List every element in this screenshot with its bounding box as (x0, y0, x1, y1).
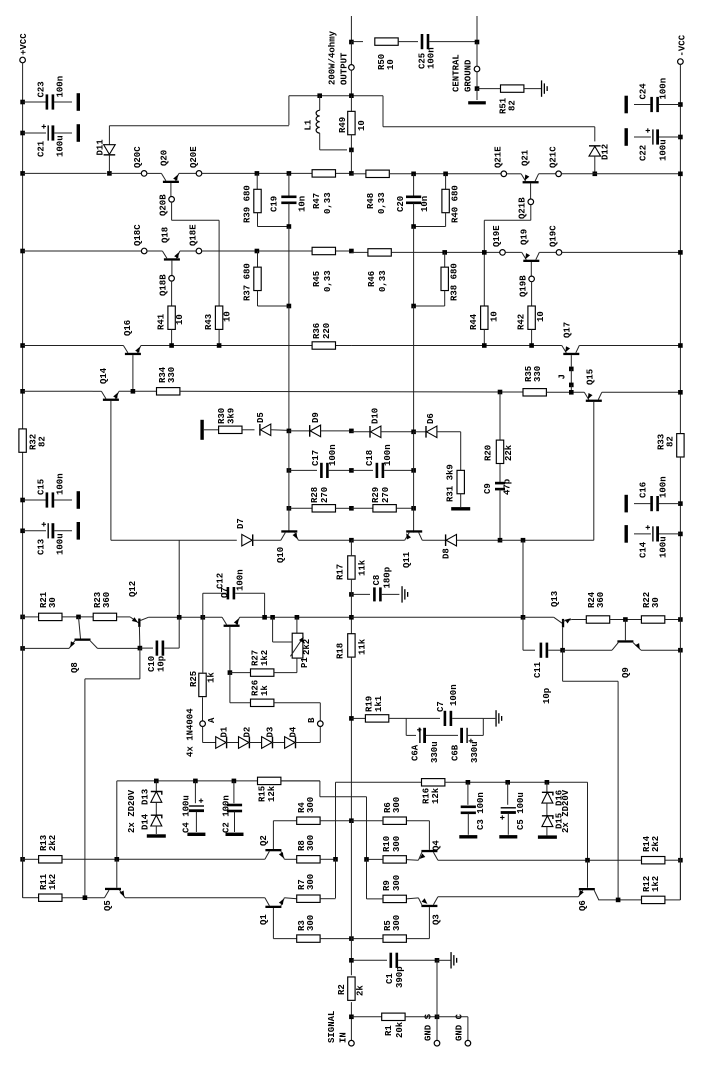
resistor R39 (256, 173, 258, 189)
svg-text:R10: R10 (382, 836, 392, 852)
wire Q21B jog to R44 (530, 205, 532, 221)
diode D10 (351, 431, 370, 433)
resistor R36 (312, 342, 335, 349)
wire step Q12 node down (139, 648, 141, 679)
wire bus R (413, 227, 415, 307)
wire Q19C to -VCC (562, 251, 681, 253)
node C5 (505, 780, 510, 785)
resistor R10 (383, 856, 406, 863)
svg-text:2x ZD20V: 2x ZD20V (561, 789, 571, 833)
svg-text:100u: 100u (659, 536, 669, 558)
svg-text:330: 330 (167, 367, 177, 383)
wire Q15 base lead (593, 402, 595, 540)
svg-text:220: 220 (322, 323, 332, 339)
node R3 bus (349, 936, 354, 941)
svg-text:270: 270 (381, 487, 391, 503)
capacitor C8 (349, 592, 354, 597)
wire bias line right (351, 345, 561, 347)
terminal Q21C (556, 171, 562, 177)
node R1 (349, 1015, 354, 1020)
svg-text:100n: 100n (328, 444, 338, 466)
svg-text:0,33: 0,33 (323, 192, 333, 214)
svg-text:C21: C21 (37, 140, 47, 157)
resistor R34 (157, 388, 180, 395)
svg-text:A: A (207, 717, 217, 723)
capacitor C21 (20, 131, 25, 136)
svg-text:Q20E: Q20E (189, 146, 199, 168)
wire R26 to B (319, 703, 321, 721)
capacitor C11 (540, 643, 543, 658)
node D10 bus (411, 430, 416, 435)
transistor Q6 (594, 890, 599, 900)
wire Q7 base lead (229, 627, 231, 673)
wire bus R lower (413, 306, 415, 432)
svg-text:C20: C20 (396, 196, 406, 212)
transistor Q13 (523, 616, 554, 618)
svg-text:C19: C19 (270, 196, 280, 212)
wire Q12 base lead (138, 627, 141, 648)
svg-text:R2: R2 (337, 984, 347, 995)
node P1 top (295, 615, 300, 620)
svg-text:R38 680: R38 680 (450, 263, 460, 301)
node Q6 riser (585, 858, 590, 863)
wire Q14 base lead (110, 401, 112, 540)
transistor Q15 (584, 392, 589, 399)
wire bus R17-R18 (350, 594, 352, 633)
svg-text:R27: R27 (251, 650, 261, 666)
svg-text:Q19C: Q19C (549, 225, 559, 247)
transistor Q3 (433, 897, 438, 905)
capacitor C24 (678, 102, 683, 107)
resistor R32 (19, 429, 26, 452)
svg-text:330u: 330u (470, 741, 480, 763)
node R42 bias (529, 343, 534, 348)
node Q13 top (521, 615, 526, 620)
node zener riser (115, 857, 120, 862)
terminal A (200, 721, 206, 727)
svg-text:100n: 100n (427, 47, 437, 69)
svg-text:C12: C12 (216, 573, 226, 589)
svg-text:3k9: 3k9 (227, 408, 237, 424)
terminal Q21E (501, 171, 507, 177)
svg-text:Q11: Q11 (402, 551, 412, 568)
resistor R29 (351, 507, 373, 509)
svg-text:4x 1N4004: 4x 1N4004 (186, 708, 196, 757)
wire Q6 base lead (587, 860, 589, 888)
svg-text:C2 100n: C2 100n (222, 795, 232, 833)
node R39 top (255, 171, 260, 176)
wire R2 to R1 (350, 1002, 352, 1040)
node R17 top (349, 538, 354, 543)
svg-text:D9: D9 (311, 412, 321, 423)
ground bar C13 (77, 522, 80, 540)
terminal Q19B (529, 276, 535, 282)
wire Q14 base line (111, 539, 237, 541)
transistor Q5 (105, 890, 110, 898)
node Q16 base (131, 389, 136, 394)
node central ground (475, 86, 480, 91)
transistor Q2 (265, 851, 270, 859)
wire R4 to bus (320, 820, 351, 822)
svg-text:360: 360 (102, 592, 112, 608)
node Q8 base (76, 615, 81, 620)
diode D5 (259, 424, 260, 436)
wire Q19C (539, 251, 556, 253)
capacitor C13 (20, 529, 25, 534)
svg-text:D12: D12 (601, 144, 611, 160)
resistor R21 (39, 613, 62, 620)
capacitor C23 (20, 100, 25, 105)
svg-text:Q19E: Q19E (492, 225, 502, 247)
node R44 bias (482, 343, 487, 348)
node R41 bias (169, 343, 174, 348)
svg-text:Q8: Q8 (70, 662, 80, 673)
svg-text:82: 82 (38, 436, 48, 447)
wire R34 to R35 (180, 390, 523, 393)
node GND S (435, 1015, 440, 1020)
svg-text:D7: D7 (236, 518, 246, 529)
capacitor C6A (405, 718, 407, 735)
wire central ground stub (476, 16, 478, 42)
node Q7 base R27 (228, 670, 233, 675)
svg-text:R19: R19 (365, 696, 375, 712)
node R37 top (255, 249, 260, 254)
svg-text:C6A: C6A (411, 744, 421, 761)
capacitor C12 (202, 593, 204, 617)
svg-text:Q6: Q6 (578, 900, 588, 911)
ground bar C15 (77, 491, 80, 509)
wire bus R to Q11 (413, 432, 415, 533)
node J bottom (569, 390, 574, 395)
wire Q13E to Q9 (563, 649, 612, 651)
svg-text:270: 270 (320, 487, 330, 503)
transistor Q20 (147, 172, 162, 174)
svg-text:330: 330 (533, 366, 543, 382)
resistor R25 (202, 617, 204, 672)
wire zener rail left (117, 780, 320, 782)
resistor R8 (297, 856, 320, 863)
svg-text:100u: 100u (56, 135, 66, 157)
wire Q6 base riser (587, 782, 589, 860)
wire +VCC to R13 (20, 857, 25, 862)
resistor R47 (312, 170, 335, 177)
resistor R46 (368, 249, 391, 256)
svg-text:J: J (558, 374, 568, 379)
wire Q9E to -VCC (641, 649, 680, 651)
svg-text:10: 10 (536, 311, 546, 322)
wire R11 to Q5 (62, 897, 104, 899)
svg-text:R28: R28 (310, 487, 320, 503)
svg-text:C24: C24 (639, 83, 649, 100)
wire R12 to Q6 (598, 899, 641, 901)
capacitor C16 (678, 501, 683, 506)
wire R6 corner (406, 820, 429, 822)
resistor R42 (531, 282, 533, 306)
terminal Q20C (141, 171, 147, 177)
wire riser R13 node (116, 781, 118, 859)
svg-text:R31 3k9: R31 3k9 (446, 464, 456, 502)
wire R35 to Q15 (546, 391, 584, 393)
svg-text:C15: C15 (37, 479, 47, 495)
wire R46 to Q19E (391, 251, 499, 253)
svg-text:10n: 10n (298, 196, 308, 212)
wire Q21C to -VCC (561, 173, 680, 175)
resistor R18 (348, 634, 355, 657)
node R37 bus (287, 304, 292, 309)
svg-text:Q4: Q4 (432, 840, 442, 851)
node Q13E (560, 648, 565, 653)
node C1 top (349, 958, 354, 963)
svg-text:Q14: Q14 (99, 367, 109, 384)
capacitor C18 (351, 469, 373, 471)
wire Q19 base lead (530, 262, 532, 276)
resistor R1 (351, 1016, 381, 1018)
svg-text:330u: 330u (430, 741, 440, 763)
ground C1 (437, 959, 450, 961)
svg-text:R1: R1 (384, 1025, 394, 1036)
wire Q15C to -VCC (602, 391, 681, 393)
resistor R16 (422, 779, 445, 786)
capacitor C9 (495, 482, 505, 485)
wire R5 to bus (351, 938, 383, 940)
wire R7 to column (320, 898, 336, 900)
svg-text:R16: R16 (422, 788, 432, 804)
svg-text:D5: D5 (256, 412, 266, 423)
svg-text:Q17: Q17 (563, 322, 573, 338)
svg-text:1k2: 1k2 (48, 874, 58, 890)
svg-text:C17: C17 (311, 450, 321, 466)
resistor R9 (383, 895, 406, 902)
wire A to diodes (202, 727, 204, 743)
wire R10 to node (367, 858, 384, 860)
transistor Q7 (203, 616, 222, 618)
svg-text:Q21E: Q21E (494, 146, 504, 168)
resistor R26 (229, 673, 231, 703)
transistor Q21 (507, 173, 521, 175)
resistor R30 (204, 429, 219, 431)
wire -VCC to R14 (678, 858, 683, 863)
wire R15 jog to emitter column (281, 780, 320, 782)
resistor R14 (642, 857, 665, 864)
node C3 (466, 780, 471, 785)
wire Q8 base lead (79, 617, 81, 639)
svg-text:R41: R41 (157, 313, 167, 330)
ground bar C16 (625, 495, 628, 513)
node step join right (616, 898, 621, 903)
svg-text:10: 10 (175, 314, 185, 325)
resistor R4 (297, 817, 320, 824)
zener D14 (155, 802, 157, 815)
svg-text:GROUND: GROUND (464, 59, 474, 92)
node R4 bus (349, 818, 354, 823)
node C20 bus top (411, 172, 416, 177)
resistor R23 (93, 613, 116, 620)
svg-text:Q18: Q18 (161, 227, 171, 243)
svg-text:D1: D1 (220, 726, 230, 737)
transistor Q1 (265, 898, 270, 906)
node feedback join (349, 615, 354, 620)
diode D9 (289, 430, 310, 432)
resistor R17 (350, 540, 352, 555)
node output-R50 junction (349, 40, 354, 45)
svg-text:100n: 100n (659, 78, 669, 100)
svg-text:C7: C7 (436, 701, 446, 712)
node C12 right (262, 615, 267, 620)
potentiometer P1 (296, 617, 298, 633)
resistor R28 (287, 506, 292, 511)
terminal Q19C (556, 250, 562, 256)
transistor Q8 (69, 641, 75, 649)
svg-text:D14: D14 (141, 813, 151, 830)
wire Q10E to R17 (298, 539, 351, 541)
node emitters R (364, 857, 369, 862)
svg-text:180p: 180p (383, 567, 393, 589)
diode D2 (249, 737, 250, 749)
resistor R41 (171, 281, 173, 306)
svg-text:82: 82 (666, 436, 676, 447)
transistor Q18 (147, 250, 162, 252)
svg-text:C18: C18 (365, 450, 375, 466)
wire step Q13 node down (562, 650, 564, 681)
terminal CENTRAL GROUND (476, 42, 478, 66)
svg-text:B: B (307, 717, 317, 723)
terminal B (318, 721, 324, 727)
node Q21B jog (482, 250, 487, 255)
ground bar C4 (187, 833, 205, 836)
wire +VCC to Q14 (20, 389, 25, 394)
ground bar C22 (625, 128, 628, 146)
wire emitters column L (335, 859, 337, 898)
svg-text:L1: L1 (304, 119, 314, 130)
wire to GND C (437, 1016, 468, 1018)
node R38 top (442, 250, 447, 255)
wire Q4 collector riser (428, 821, 430, 850)
wire Q1 collector lead (272, 908, 274, 939)
ground bar C2 (226, 833, 244, 836)
svg-text:D11: D11 (95, 139, 105, 156)
node R25 C12 (201, 615, 206, 620)
svg-text:1k: 1k (207, 672, 217, 683)
wire Q8C to C10 (98, 647, 141, 649)
zener D16 (546, 782, 548, 792)
svg-text:200W/4ohmy: 200W/4ohmy (328, 30, 338, 85)
ground R51 (541, 80, 542, 96)
svg-text:R46: R46 (367, 271, 377, 287)
ground bar R31 (451, 507, 470, 510)
svg-text:2x ZD20V: 2x ZD20V (127, 789, 137, 833)
svg-text:R45: R45 (312, 271, 322, 287)
node R20 branch (498, 390, 503, 395)
svg-text:300: 300 (392, 836, 402, 852)
resistor R37 (257, 251, 259, 267)
wire Q18 base lead (171, 261, 173, 276)
resistor R45 (312, 247, 335, 254)
wire R48 to Q21E (389, 173, 501, 175)
wire R4 corner (273, 820, 296, 822)
resistor R12 (679, 860, 681, 900)
wire Q4E to R10 (406, 859, 418, 862)
jumper J (569, 367, 574, 372)
wire Q3 collector lead (428, 907, 430, 939)
wire output net jog (289, 95, 383, 97)
node step join (83, 895, 88, 900)
wire Q2E to R8 (284, 858, 296, 860)
svg-text:300: 300 (306, 874, 316, 890)
svg-text:22k: 22k (504, 444, 514, 461)
svg-text:GND S: GND S (424, 1013, 434, 1041)
transistor Q17 (562, 346, 567, 353)
wire bias line (141, 345, 352, 347)
wire Q21C (539, 173, 556, 175)
svg-text:10p: 10p (542, 688, 552, 704)
svg-text:11k: 11k (358, 638, 368, 655)
svg-text:C3 100n: C3 100n (476, 792, 486, 830)
wire bus L (288, 227, 290, 307)
node R40 bus (411, 224, 416, 229)
svg-text:Q20C: Q20C (133, 146, 143, 168)
wire Q18E to R45 (202, 250, 352, 252)
svg-text:C9: C9 (483, 483, 493, 494)
svg-text:D2: D2 (243, 727, 253, 738)
capacitor C7 (444, 711, 447, 726)
svg-text:100n: 100n (56, 76, 66, 98)
svg-text:20k: 20k (395, 1021, 405, 1038)
wire R9 to column (367, 898, 384, 900)
transistor Q16 (115, 345, 124, 347)
svg-text:10n: 10n (420, 196, 430, 212)
node R43 bias (217, 343, 222, 348)
svg-text:Q19B: Q19B (519, 275, 529, 297)
svg-text:C11: C11 (533, 661, 543, 678)
svg-text:Q18C: Q18C (133, 224, 143, 246)
svg-text:R42: R42 (517, 314, 527, 330)
diode D4 (295, 737, 296, 749)
svg-text:Q18E: Q18E (189, 224, 199, 246)
node D11 anode (107, 171, 112, 176)
wire Q20B jog to R43 (171, 202, 173, 220)
svg-text:0,33: 0,33 (377, 192, 387, 214)
node C17 output (349, 468, 354, 473)
svg-text:82: 82 (508, 100, 518, 111)
node C9 bottom (498, 538, 503, 543)
wire R16 rail (336, 781, 422, 783)
svg-text:SIGNAL: SIGNAL (327, 1011, 337, 1043)
resistor R5 (383, 935, 406, 942)
diode D11 (108, 126, 110, 145)
svg-text:10: 10 (386, 59, 396, 70)
svg-text:Q20: Q20 (160, 150, 170, 166)
resistor R38 (444, 252, 446, 267)
wire R22 to -VCC (665, 619, 681, 621)
svg-text:R15: R15 (258, 786, 268, 802)
diode D8 (422, 539, 446, 541)
wire R8 to node (320, 858, 336, 860)
svg-text:D13: D13 (141, 789, 151, 805)
ground bar C3 (459, 835, 477, 838)
svg-text:0,33: 0,33 (378, 270, 388, 292)
svg-text:100n: 100n (383, 444, 393, 466)
wire bus L to Q10 (288, 431, 290, 533)
ground bar zeners (155, 826, 157, 834)
terminal Q18B (169, 276, 175, 282)
svg-text:C14: C14 (639, 541, 649, 558)
capacitor C3 (467, 782, 469, 805)
wire VAS to Q15 base (500, 539, 594, 541)
wire output bus (350, 150, 352, 174)
capacitor C2 (232, 779, 237, 784)
terminal +VCC (20, 57, 26, 63)
ground bar central (476, 89, 478, 100)
